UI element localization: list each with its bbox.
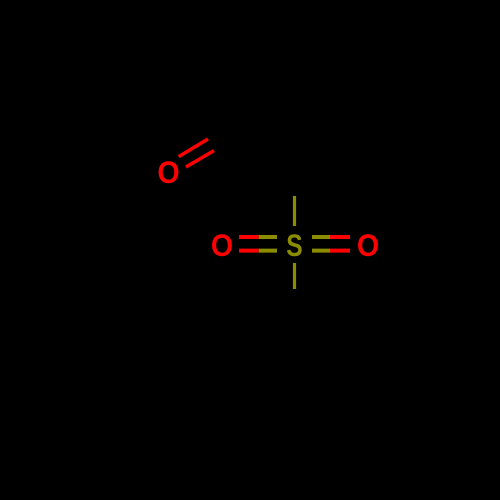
bond C1=O1 lower line (red half, aldehyde double bond) bbox=[186, 151, 214, 167]
atom O1 (aldehyde oxygen) bbox=[157, 156, 179, 191]
bond C2-S1 (olive half above S) bbox=[293, 196, 296, 226]
bond S1=O2 upper line red half bbox=[239, 235, 259, 239]
bond S1=O2 lower line red half bbox=[239, 249, 259, 253]
bond S1=O3 upper line red half bbox=[330, 235, 350, 239]
svg-text:O: O bbox=[357, 229, 379, 264]
bond S1=O2 upper line olive half bbox=[259, 235, 277, 239]
svg-text:O: O bbox=[157, 156, 179, 191]
bond S1=O3 lower line olive half bbox=[312, 249, 330, 253]
atom O2 (left sulfonyl oxygen) bbox=[211, 229, 233, 264]
atom O3 (right sulfonyl oxygen) bbox=[357, 229, 379, 264]
bond S1=O3 upper line olive half bbox=[312, 235, 330, 239]
atom S1 (sulfur) bbox=[286, 227, 302, 263]
bond C1=O1 upper line (red half, aldehyde double bond) bbox=[179, 139, 208, 157]
svg-text:S: S bbox=[286, 227, 302, 263]
bond S1=O3 lower line red half bbox=[330, 249, 350, 253]
bond S1=O2 lower line olive half bbox=[259, 249, 277, 253]
bond S1-C3 (olive half below S) bbox=[293, 263, 296, 289]
svg-text:O: O bbox=[211, 229, 233, 264]
